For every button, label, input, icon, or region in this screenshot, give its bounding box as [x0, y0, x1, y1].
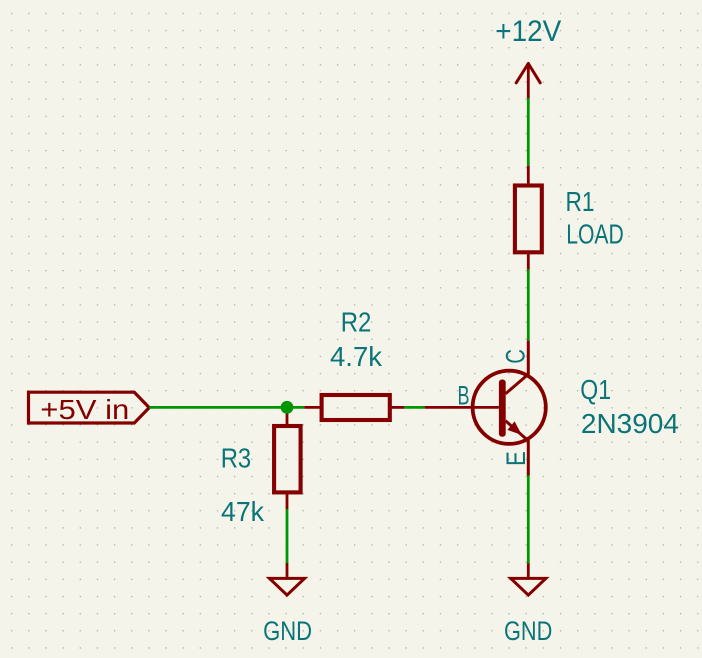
junction on +5V net [281, 401, 294, 414]
svg-text:R2: R2 [341, 306, 372, 337]
svg-text:+5V in: +5V in [40, 394, 129, 425]
wire +5V in to R2 [149, 406, 304, 409]
svg-text:B: B [458, 381, 470, 411]
resistor R1 [515, 166, 542, 270]
svg-text:4.7k: 4.7k [330, 341, 382, 372]
svg-text:C: C [501, 349, 531, 364]
ground symbol right [511, 563, 546, 595]
svg-text:47k: 47k [221, 496, 264, 527]
svg-text:E: E [501, 451, 531, 466]
power symbol +12V [516, 64, 540, 99]
svg-text:R3: R3 [221, 442, 252, 473]
resistor R3 [274, 407, 301, 509]
resistor R2 [304, 395, 404, 420]
ground symbol left [269, 563, 304, 595]
svg-text:GND: GND [263, 616, 312, 646]
transistor Q1 [425, 341, 546, 476]
svg-text:2N3904: 2N3904 [581, 408, 679, 439]
svg-text:+12V: +12V [495, 15, 561, 48]
wire R1 to Q1 collector [527, 270, 530, 341]
svg-text:LOAD: LOAD [566, 218, 624, 249]
svg-text:GND: GND [504, 616, 552, 646]
global label +5V in [29, 392, 150, 425]
svg-text:Q1: Q1 [580, 374, 611, 405]
wire R2 to Q1 base [404, 406, 425, 409]
wire +12V to R1 [527, 98, 530, 166]
wire Q1 emitter to GND [527, 476, 530, 564]
wire R3 to GND [286, 509, 289, 563]
svg-text:R1: R1 [566, 186, 595, 217]
